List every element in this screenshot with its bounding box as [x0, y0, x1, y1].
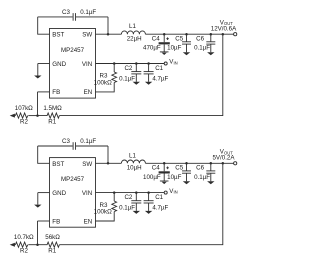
svg-text:C4: C4 [152, 165, 160, 172]
svg-text:GND: GND [52, 61, 66, 68]
svg-text:R2: R2 [20, 119, 28, 126]
svg-text:56kΩ: 56kΩ [45, 234, 60, 241]
svg-text:VIN: VIN [169, 59, 177, 66]
svg-text:MP2457: MP2457 [61, 47, 85, 54]
svg-text:0.1µF: 0.1µF [119, 75, 135, 82]
svg-text:4.7µF: 4.7µF [152, 75, 168, 82]
svg-text:100kΩ: 100kΩ [94, 208, 112, 215]
svg-text:R2: R2 [20, 248, 28, 255]
svg-text:R1: R1 [48, 119, 56, 126]
svg-text:C5: C5 [175, 164, 183, 171]
svg-text:0.1µF: 0.1µF [80, 138, 96, 145]
svg-text:C5: C5 [175, 35, 183, 42]
svg-text:L1: L1 [129, 152, 136, 159]
svg-text:VIN: VIN [82, 61, 92, 68]
svg-text:C6: C6 [196, 35, 204, 42]
svg-text:SW: SW [82, 32, 92, 39]
svg-text:0.1µF: 0.1µF [119, 205, 135, 212]
svg-text:4.7µF: 4.7µF [152, 205, 168, 212]
svg-text:GND: GND [52, 190, 66, 197]
svg-text:EN: EN [84, 218, 93, 225]
svg-text:C6: C6 [196, 164, 204, 171]
svg-text:R1: R1 [48, 248, 56, 255]
svg-text:100µF: 100µF [143, 174, 161, 181]
svg-text:12V/0.6A: 12V/0.6A [211, 25, 237, 32]
svg-text:10µH: 10µH [127, 164, 142, 171]
svg-text:107kΩ: 107kΩ [15, 105, 33, 112]
svg-text:C1: C1 [155, 65, 163, 72]
svg-text:MP2457: MP2457 [61, 176, 85, 183]
svg-text:470µF: 470µF [143, 45, 161, 52]
svg-text:VIN: VIN [169, 188, 177, 195]
svg-text:10µF: 10µF [167, 174, 181, 181]
svg-text:C3: C3 [62, 138, 70, 145]
svg-text:FB: FB [52, 89, 60, 96]
svg-text:L1: L1 [129, 23, 136, 30]
svg-text:10µF: 10µF [167, 45, 181, 52]
svg-text:C2: C2 [124, 65, 132, 72]
svg-text:0.1µF: 0.1µF [194, 174, 210, 181]
svg-text:C4: C4 [152, 36, 160, 43]
svg-text:EN: EN [84, 89, 93, 96]
svg-text:C3: C3 [62, 9, 70, 16]
svg-text:10.7kΩ: 10.7kΩ [14, 234, 34, 241]
svg-text:SW: SW [82, 161, 92, 168]
svg-text:C2: C2 [124, 194, 132, 201]
svg-text:5V/0.2A: 5V/0.2A [212, 155, 235, 162]
svg-text:C1: C1 [155, 194, 163, 201]
svg-text:22µH: 22µH [127, 35, 142, 42]
svg-text:FB: FB [52, 218, 60, 225]
svg-text:0.1µF: 0.1µF [80, 9, 96, 16]
svg-text:BST: BST [52, 161, 64, 168]
svg-text:1.5MΩ: 1.5MΩ [43, 105, 62, 112]
svg-text:BST: BST [52, 32, 64, 39]
svg-text:0.1µF: 0.1µF [194, 45, 210, 52]
svg-text:VIN: VIN [82, 190, 92, 197]
svg-text:100kΩ: 100kΩ [94, 79, 112, 86]
